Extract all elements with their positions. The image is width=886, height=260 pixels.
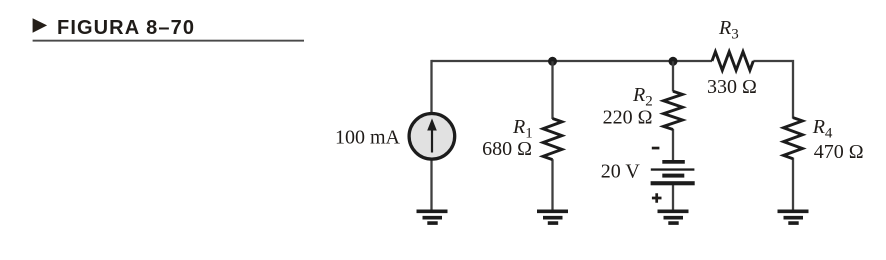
resistor R1 zigzag (543, 119, 562, 160)
resistor R4 zigzag (784, 118, 803, 159)
svg-text:100 mA: 100 mA (335, 127, 401, 149)
svg-text:FIGURA 8–70: FIGURA 8–70 (57, 17, 195, 39)
svg-text:220 Ω: 220 Ω (603, 107, 653, 129)
svg-text:470 Ω: 470 Ω (814, 141, 864, 163)
wire: top bus right segment with corner down to R4 (753, 61, 793, 119)
current source I 100 mA: circle (409, 114, 455, 160)
current source arrow (427, 118, 437, 152)
wire: current source top lead (430, 60, 432, 113)
svg-text:680 Ω: 680 Ω (482, 138, 532, 160)
battery VS 20 V: plate 1 short (negative) (662, 160, 685, 164)
wire: R1 bottom lead (551, 159, 553, 211)
caption underline (33, 40, 304, 42)
node B junction dot (669, 57, 678, 66)
battery minus sign (652, 147, 660, 150)
resistor R3 zigzag (horizontal) (712, 52, 753, 71)
wire: R2 top lead (672, 61, 674, 91)
battery plus sign (652, 193, 662, 203)
wire: current source bottom lead (430, 160, 432, 211)
svg-text:R3: R3 (718, 17, 739, 43)
svg-text:20 V: 20 V (601, 160, 641, 182)
node A junction dot (548, 57, 557, 66)
svg-text:R4: R4 (812, 116, 833, 142)
ground symbol (below current source) (417, 211, 448, 223)
wire: battery to ground (672, 184, 674, 211)
svg-text:330 Ω: 330 Ω (707, 76, 757, 98)
battery plate 4 long (positive terminal) (651, 181, 695, 185)
ground symbol (below battery) (658, 211, 689, 223)
ground symbol (below R1) (537, 211, 568, 223)
ground symbol (below R4) (778, 211, 809, 223)
wire: top bus left segment (source node to R3 left) (432, 60, 713, 62)
battery plate 3 short (662, 174, 684, 178)
wire: R4 bottom lead (792, 158, 794, 211)
resistor R2 zigzag (664, 91, 683, 129)
figure caption arrow (33, 18, 48, 33)
battery plate 2 long thin (651, 168, 695, 170)
wire: R2 bottom to battery (672, 129, 674, 161)
wire: R1 top lead (551, 61, 553, 119)
